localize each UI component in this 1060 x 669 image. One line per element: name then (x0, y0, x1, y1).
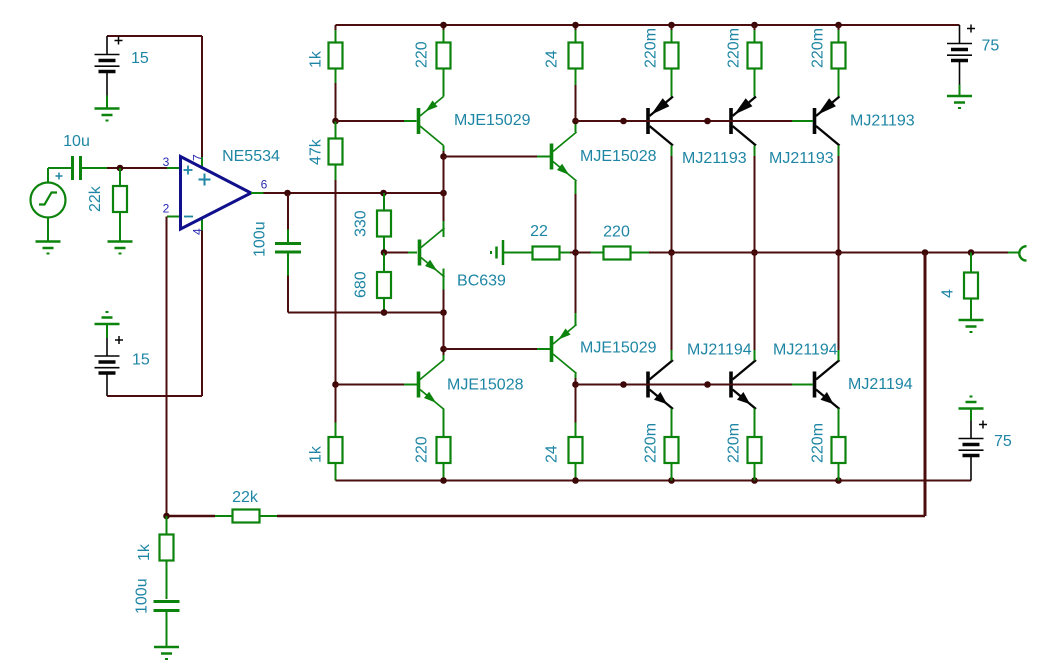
svg-text:NE5534: NE5534 (222, 148, 280, 165)
svg-text:4: 4 (940, 289, 957, 298)
svg-text:MJE15028: MJE15028 (580, 148, 657, 165)
svg-text:24: 24 (544, 445, 561, 463)
svg-text:2: 2 (163, 202, 170, 216)
svg-text:220: 220 (603, 224, 630, 241)
svg-text:15: 15 (132, 352, 150, 369)
svg-text:1k: 1k (308, 50, 325, 68)
svg-text:7: 7 (191, 154, 205, 161)
svg-text:1k: 1k (136, 543, 153, 561)
svg-text:MJE15029: MJE15029 (454, 112, 531, 129)
svg-text:MJ21193: MJ21193 (769, 150, 834, 167)
svg-text:MJ21194: MJ21194 (848, 376, 913, 393)
svg-text:3: 3 (163, 155, 170, 169)
svg-text:MJE15029: MJE15029 (580, 340, 657, 357)
svg-text:100u: 100u (252, 221, 269, 257)
svg-text:MJE15028: MJE15028 (447, 377, 524, 394)
svg-text:100u: 100u (134, 578, 151, 614)
svg-text:22: 22 (530, 223, 548, 240)
svg-text:220m: 220m (810, 28, 827, 68)
svg-text:MJ21194: MJ21194 (773, 342, 838, 359)
svg-text:75: 75 (982, 38, 1000, 55)
svg-text:1k: 1k (308, 445, 325, 463)
svg-text:24: 24 (544, 50, 561, 68)
svg-text:BC639: BC639 (457, 273, 506, 290)
svg-text:47k: 47k (308, 138, 325, 165)
svg-text:22k: 22k (232, 489, 259, 506)
svg-text:220m: 220m (726, 28, 743, 68)
svg-text:MJ21193: MJ21193 (682, 150, 747, 167)
svg-text:220: 220 (414, 41, 431, 68)
svg-text:22k: 22k (87, 185, 104, 212)
svg-text:220: 220 (414, 436, 431, 463)
svg-text:10u: 10u (63, 133, 90, 150)
svg-text:330: 330 (353, 210, 370, 237)
svg-text:220m: 220m (643, 423, 660, 463)
svg-text:220m: 220m (643, 28, 660, 68)
svg-text:220m: 220m (810, 423, 827, 463)
svg-text:75: 75 (994, 433, 1012, 450)
svg-text:220m: 220m (726, 423, 743, 463)
svg-text:680: 680 (353, 271, 370, 298)
svg-text:MJ21194: MJ21194 (687, 342, 752, 359)
svg-text:4: 4 (191, 228, 205, 235)
svg-text:15: 15 (131, 50, 149, 67)
svg-text:MJ21193: MJ21193 (850, 113, 915, 130)
svg-text:6: 6 (261, 178, 268, 192)
